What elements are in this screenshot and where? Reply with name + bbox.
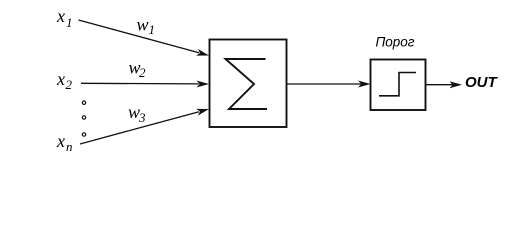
svg-text:3: 3	[138, 110, 146, 125]
svg-text:2: 2	[139, 65, 146, 80]
svg-text:2: 2	[66, 77, 73, 92]
svg-text:w: w	[137, 15, 149, 35]
svg-text:x: x	[56, 131, 65, 151]
svg-text:Порог: Порог	[376, 35, 415, 50]
svg-text:x: x	[56, 6, 65, 26]
svg-text:1: 1	[66, 15, 73, 30]
svg-text:n: n	[66, 139, 73, 154]
svg-text:OUT: OUT	[465, 74, 499, 91]
svg-text:1: 1	[149, 22, 156, 37]
svg-text:x: x	[56, 69, 65, 89]
